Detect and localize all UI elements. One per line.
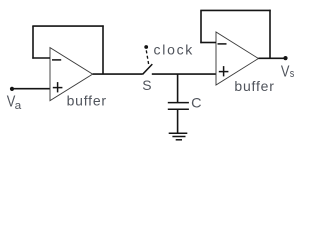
wire capacitor bottom stub [177, 109, 179, 133]
svg-text:s: s [290, 68, 295, 80]
capacitor C top plate [168, 102, 189, 104]
wire capacitor top stub [177, 74, 179, 103]
node Va terminal dot [10, 87, 14, 91]
op-amp U2 minus input sign [218, 43, 227, 45]
wire Va input to buffer 1 plus input [12, 88, 50, 90]
svg-text:C: C [191, 95, 201, 111]
wire U2 feedback top horizontal [200, 9, 270, 11]
svg-text:buffer: buffer [67, 93, 107, 109]
wire U1 output [93, 73, 143, 75]
wire U1 feedback top horizontal [32, 25, 103, 27]
wire U1 feedback into minus input [32, 57, 50, 59]
node Vs terminal dot [283, 56, 287, 60]
op-amp U2 triangle [216, 32, 258, 85]
op-amp U1 minus input sign [52, 59, 61, 61]
op-amp U1 triangle [50, 48, 93, 101]
capacitor C bottom plate [168, 108, 189, 110]
svg-text:a: a [15, 100, 22, 112]
op-amp U1 plus input sign [53, 82, 63, 92]
switch S arm [143, 64, 153, 74]
ground symbol [169, 133, 188, 140]
wire U1 feedback left vertical [32, 26, 34, 59]
switch S control dashed line [146, 50, 148, 64]
svg-text:clock: clock [154, 41, 194, 57]
wire U2 output [258, 57, 285, 59]
wire U1 feedback right vertical [102, 25, 104, 74]
op-amp U2 plus input sign [219, 66, 229, 76]
svg-text:buffer: buffer [234, 78, 274, 94]
clock node dot [144, 45, 148, 49]
wire U2 feedback left vertical [200, 10, 202, 43]
wire U2 feedback into minus input [200, 42, 216, 44]
svg-text:V: V [281, 63, 290, 80]
wire switch to U2 plus input [152, 73, 216, 75]
wire U2 feedback right vertical [269, 10, 271, 59]
svg-text:S: S [142, 77, 151, 93]
